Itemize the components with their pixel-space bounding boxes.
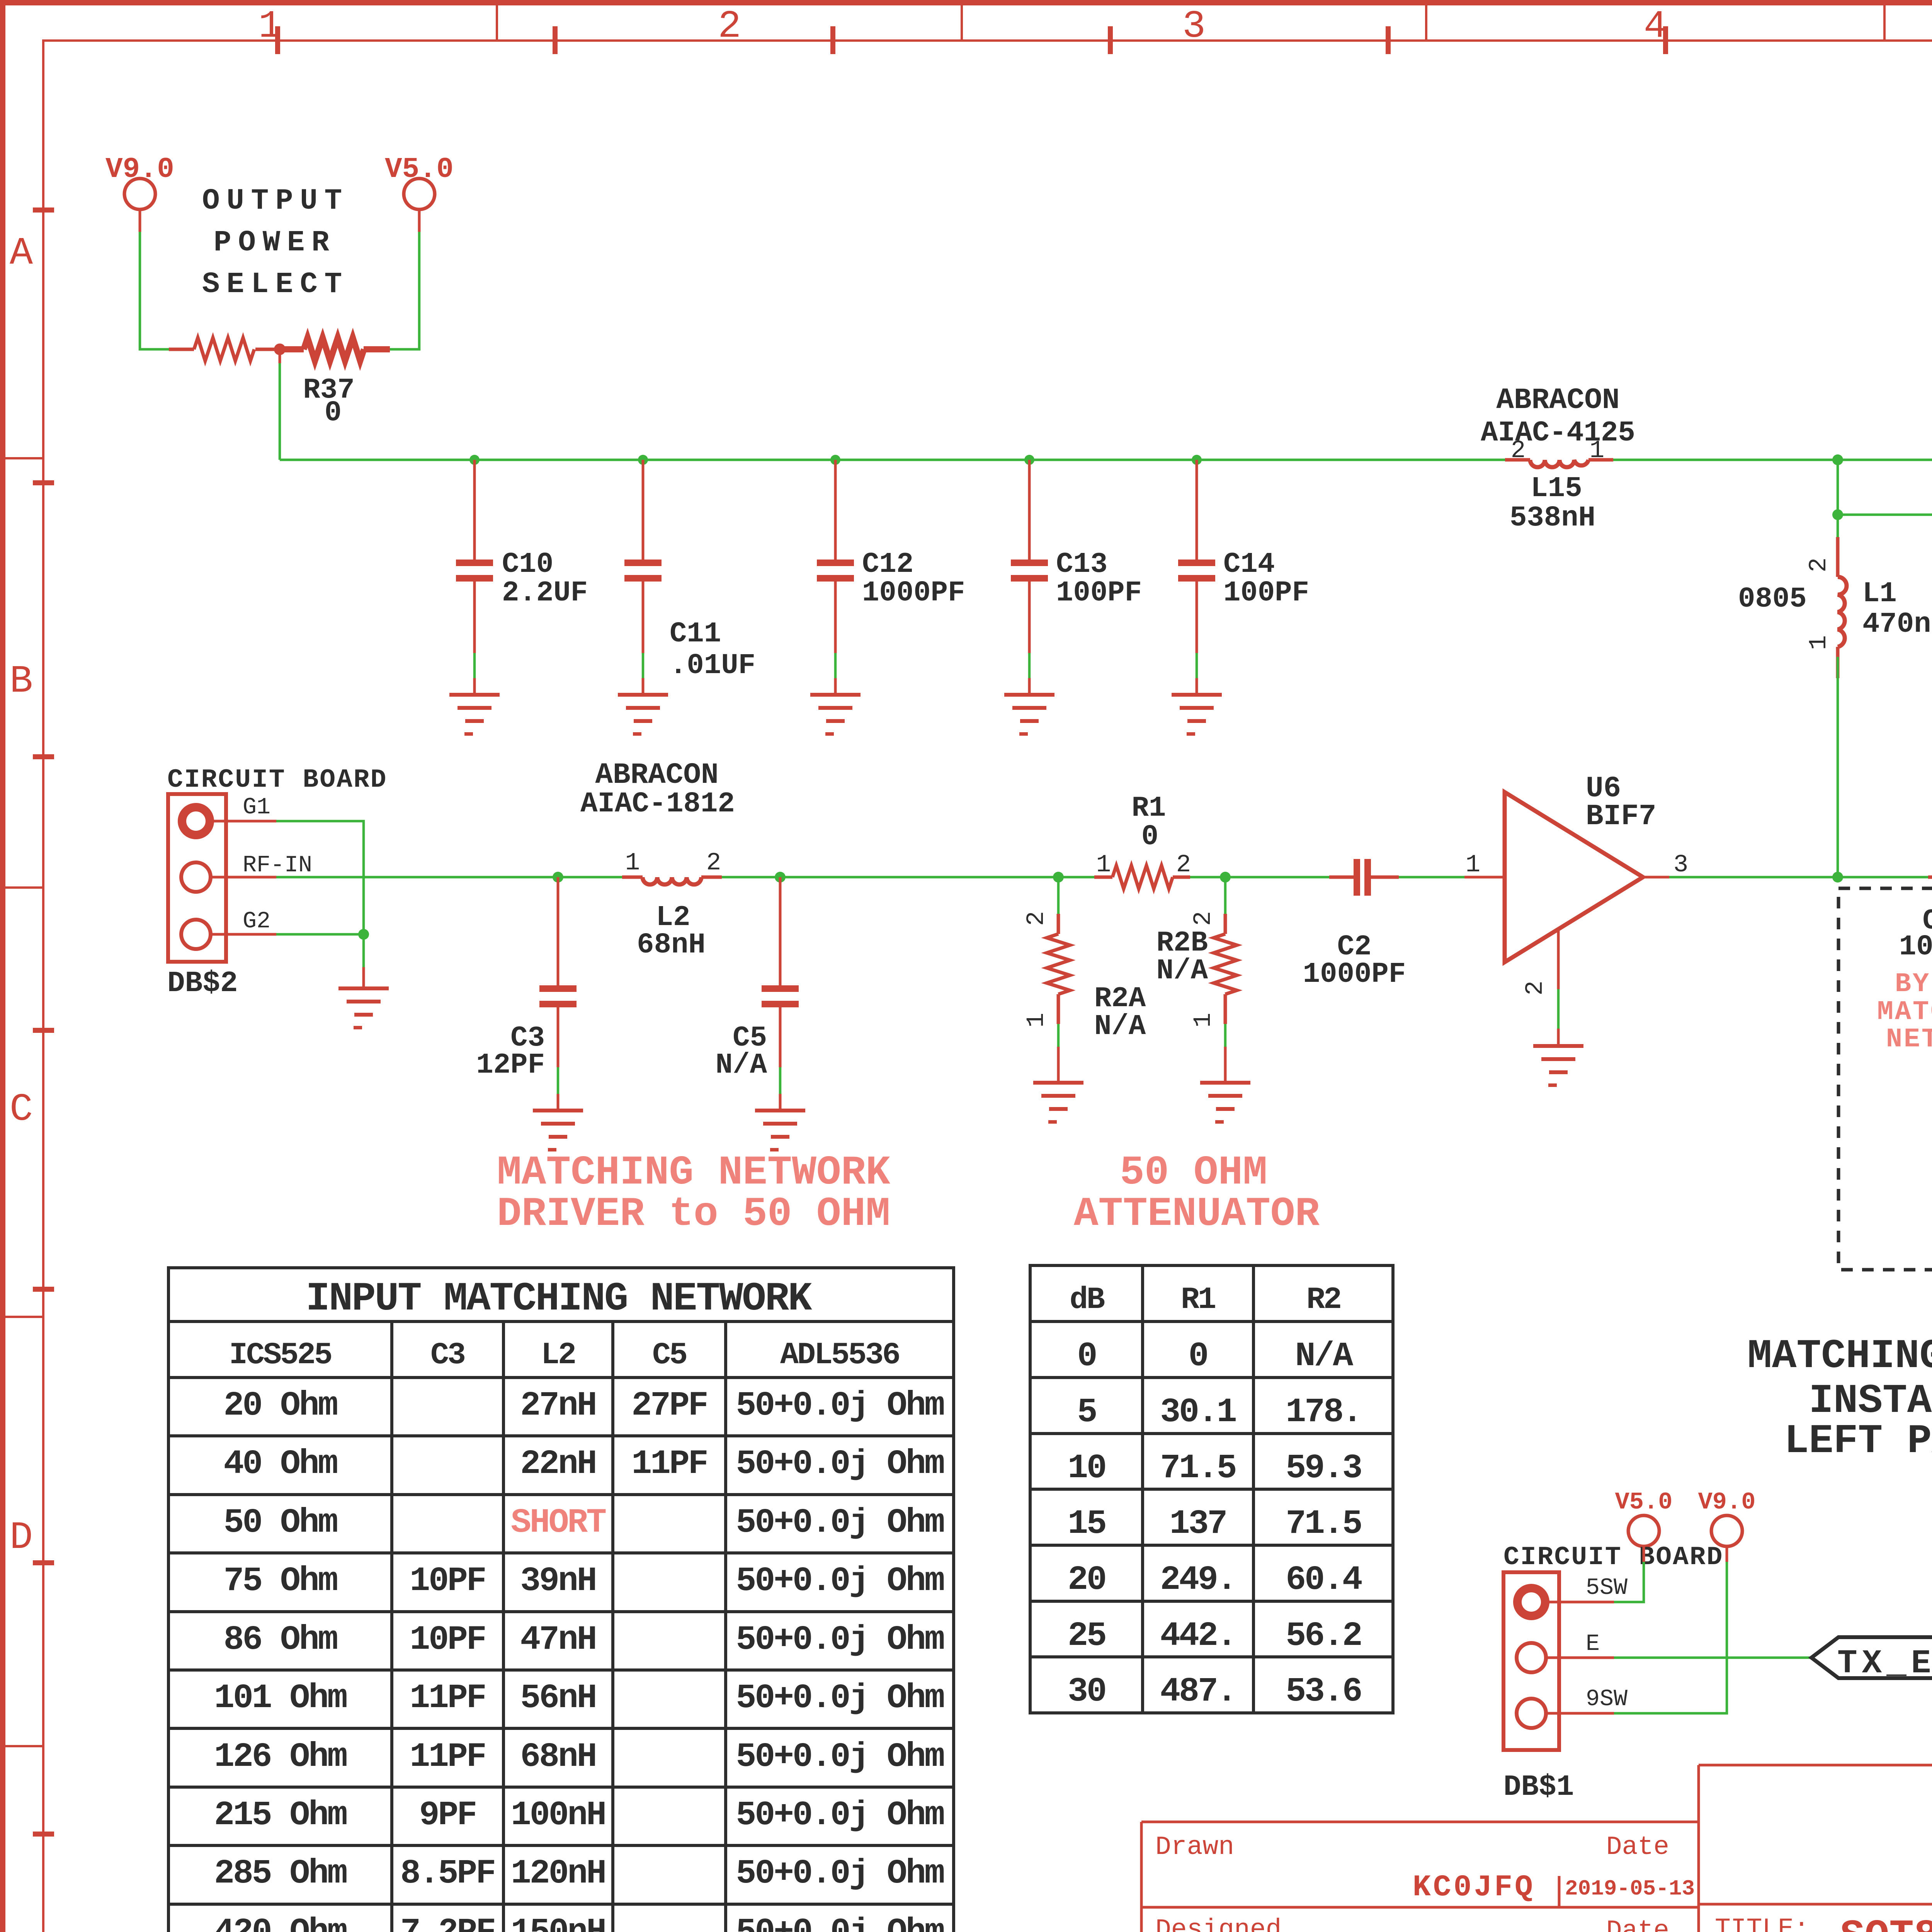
- svg-text:1: 1: [625, 849, 640, 877]
- svg-text:25: 25: [1068, 1617, 1105, 1655]
- svg-text:dB: dB: [1070, 1282, 1105, 1318]
- svg-text:E: E: [1586, 1631, 1600, 1657]
- ground under C14: [1172, 693, 1222, 736]
- svg-text:538nH: 538nH: [1510, 502, 1595, 534]
- svg-text:59.3: 59.3: [1286, 1449, 1361, 1488]
- node U6 output / power: [1832, 872, 1843, 883]
- power terminal V5.0: [385, 153, 454, 209]
- power terminal V5.0 (enable): [1615, 1488, 1673, 1546]
- svg-text:B: B: [10, 660, 33, 704]
- wire G2 node to ground: [362, 934, 365, 967]
- ground under DB$2: [338, 986, 389, 1029]
- svg-text:5: 5: [1077, 1393, 1096, 1432]
- svg-text:G2: G2: [243, 908, 270, 935]
- svg-text:2: 2: [1511, 437, 1526, 465]
- border outer band: [0, 0, 1932, 5]
- svg-text:1: 1: [1023, 1013, 1051, 1027]
- svg-text:12PF: 12PF: [476, 1049, 545, 1082]
- capacitor C3: [476, 877, 577, 1109]
- node G2 junction: [358, 929, 369, 940]
- svg-text:MATCHING NETWORK TO BE BYPASSE: MATCHING NETWORK TO BE BYPASSED.: [1747, 1333, 1932, 1379]
- svg-text:56.2: 56.2: [1286, 1617, 1361, 1655]
- capacitor C11: [624, 455, 755, 693]
- svg-text:8.5PF: 8.5PF: [400, 1855, 495, 1893]
- svg-text:R1: R1: [1132, 792, 1166, 825]
- svg-text:100PF: 100PF: [1056, 577, 1142, 609]
- svg-text:V5.0: V5.0: [1615, 1488, 1673, 1516]
- svg-text:7.2PF: 7.2PF: [400, 1913, 495, 1932]
- svg-text:50+0.0j Ohm: 50+0.0j Ohm: [736, 1855, 944, 1893]
- svg-text:10PF: 10PF: [410, 1562, 485, 1600]
- pin E: [1546, 1656, 1614, 1659]
- svg-text:56nH: 56nH: [520, 1679, 595, 1718]
- border left zone dividers: [5, 457, 43, 1747]
- svg-text:53.6: 53.6: [1286, 1673, 1361, 1711]
- inductor L15: [1481, 384, 1635, 534]
- svg-text:50 OHM: 50 OHM: [1120, 1150, 1267, 1196]
- svg-text:C3: C3: [430, 1338, 464, 1373]
- svg-text:101 Ohm: 101 Ohm: [214, 1679, 347, 1718]
- border left zone letters: [10, 232, 33, 1932]
- wire E to TX_ENA: [1614, 1656, 1811, 1659]
- ground under U6: [1533, 1044, 1583, 1087]
- node R2B: [1220, 872, 1231, 883]
- pin G1: [211, 820, 276, 823]
- svg-text:INPUT MATCHING NETWORK: INPUT MATCHING NETWORK: [306, 1276, 812, 1322]
- svg-text:C13: C13: [1056, 548, 1107, 581]
- RFIN: [167, 759, 1838, 1151]
- svg-text:DB$2: DB$2: [167, 967, 238, 1000]
- svg-text:50+0.0j Ohm: 50+0.0j Ohm: [736, 1445, 944, 1483]
- resistor R2A: [1023, 877, 1146, 1081]
- power terminal V9.0: [105, 153, 174, 209]
- node C5: [775, 872, 786, 883]
- svg-text:2: 2: [1805, 558, 1833, 572]
- svg-text:22nH: 22nH: [520, 1445, 595, 1483]
- power terminal V9.0 (enable): [1698, 1488, 1756, 1546]
- svg-text:0: 0: [1189, 1337, 1207, 1376]
- POWERRAIL: [280, 384, 1932, 877]
- op-amp U6 BIF7: [1466, 772, 1688, 995]
- RFOUT: [1832, 765, 1932, 1270]
- label OUTPUT POWER SELECT: [202, 184, 349, 301]
- svg-text:CIRCUIT BOARD: CIRCUIT BOARD: [1503, 1543, 1724, 1572]
- svg-text:2: 2: [718, 5, 741, 49]
- svg-text:Drawn: Drawn: [1155, 1832, 1234, 1862]
- ground under C11: [618, 693, 668, 736]
- NOTES: [497, 1150, 1932, 1464]
- svg-text:L2: L2: [541, 1338, 575, 1373]
- CONNECTORS2: [1503, 1486, 1932, 1804]
- svg-text:R1: R1: [1181, 1282, 1215, 1318]
- border top zone numbers: [259, 5, 1932, 49]
- svg-text:50+0.0j Ohm: 50+0.0j Ohm: [736, 1387, 944, 1425]
- resistor R37 0ohm (bold): [282, 338, 390, 361]
- inductor L2: [580, 759, 735, 961]
- wire 9SW to V9.0: [1614, 1562, 1727, 1713]
- svg-text:R2: R2: [1306, 1282, 1340, 1318]
- wire L1 down to RF node: [1837, 657, 1839, 877]
- svg-text:50+0.0j Ohm: 50+0.0j Ohm: [736, 1738, 944, 1776]
- svg-text:487.: 487.: [1160, 1673, 1235, 1711]
- svg-text:11PF: 11PF: [410, 1679, 485, 1718]
- svg-text:Designed: Designed: [1155, 1915, 1281, 1932]
- pin G2: [211, 933, 276, 936]
- svg-text:3: 3: [1182, 5, 1206, 49]
- TITLEBLOCK: [196, 1765, 1932, 1932]
- inductor L1: [1738, 515, 1932, 678]
- svg-text:V9.0: V9.0: [1698, 1488, 1756, 1516]
- pin 5SW: [1546, 1601, 1614, 1604]
- svg-text:1: 1: [1466, 851, 1480, 879]
- svg-text:50 Ohm: 50 Ohm: [224, 1504, 337, 1542]
- svg-text:N/A: N/A: [1094, 1010, 1146, 1043]
- wire R37 node down to rail: [279, 349, 281, 363]
- svg-text:BYPASS: BYPASS: [1895, 969, 1932, 1000]
- svg-text:AIAC-4125: AIAC-4125: [1481, 417, 1635, 449]
- svg-text:C: C: [10, 1088, 33, 1132]
- capacitor C5: [716, 877, 799, 1109]
- pin RF-IN: [211, 876, 276, 879]
- ground under R2A: [1033, 1081, 1083, 1124]
- wire V9.0 stem: [139, 209, 141, 232]
- svg-text:AIAC-1812: AIAC-1812: [580, 788, 735, 820]
- svg-text:30: 30: [1068, 1673, 1105, 1711]
- svg-text:71.5: 71.5: [1160, 1449, 1235, 1488]
- svg-text:2: 2: [1522, 981, 1549, 995]
- wire R1 to C2: [1190, 876, 1329, 879]
- svg-text:NETWORK: NETWORK: [1886, 1024, 1932, 1055]
- svg-text:1000PF: 1000PF: [1899, 931, 1932, 963]
- capacitor C12: [817, 455, 965, 693]
- svg-text:50+0.0j Ohm: 50+0.0j Ohm: [736, 1796, 944, 1835]
- svg-text:20: 20: [1068, 1561, 1105, 1599]
- svg-text:OUTPUT: OUTPUT: [202, 184, 349, 218]
- svg-text:1: 1: [1190, 1013, 1218, 1027]
- svg-text:2: 2: [1176, 851, 1191, 879]
- svg-text:ATTENUATOR: ATTENUATOR: [1074, 1191, 1320, 1237]
- net flag TX_ENA: [1811, 1637, 1932, 1682]
- svg-text:50+0.0j Ohm: 50+0.0j Ohm: [736, 1913, 944, 1932]
- svg-text:0: 0: [1077, 1337, 1096, 1376]
- svg-text:50+0.0j Ohm: 50+0.0j Ohm: [736, 1679, 944, 1718]
- wire branch to C1 C4: [1838, 514, 1932, 516]
- svg-text:INSTALL A CAPACITOR BETWEEN: INSTALL A CAPACITOR BETWEEN: [1809, 1378, 1932, 1424]
- svg-text:KC0JFQ: KC0JFQ: [1413, 1871, 1535, 1905]
- wire C2 to U6: [1399, 876, 1464, 879]
- svg-text:120nH: 120nH: [511, 1855, 605, 1893]
- svg-text:50+0.0j Ohm: 50+0.0j Ohm: [736, 1504, 944, 1542]
- svg-text:0: 0: [1141, 821, 1158, 853]
- wire power rail: [280, 459, 1505, 461]
- svg-text:C5: C5: [652, 1338, 686, 1373]
- svg-text:SHORT: SHORT: [511, 1504, 606, 1542]
- svg-text:137: 137: [1170, 1505, 1226, 1543]
- svg-text:249.: 249.: [1160, 1561, 1235, 1599]
- svg-text:68nH: 68nH: [637, 929, 706, 961]
- svg-text:Date: Date: [1606, 1832, 1669, 1862]
- svg-text:ABRACON: ABRACON: [1496, 384, 1619, 417]
- svg-text:ADL5536: ADL5536: [780, 1338, 899, 1373]
- svg-text:C12: C12: [862, 548, 913, 581]
- svg-text:11PF: 11PF: [410, 1738, 485, 1776]
- svg-text:2: 2: [706, 849, 721, 877]
- svg-text:A: A: [10, 232, 33, 276]
- svg-text:50+0.0j Ohm: 50+0.0j Ohm: [736, 1621, 944, 1659]
- ground under C5: [755, 1109, 805, 1151]
- svg-text:40 Ohm: 40 Ohm: [224, 1445, 337, 1483]
- svg-text:2.2UF: 2.2UF: [502, 577, 588, 609]
- svg-text:68nH: 68nH: [520, 1738, 595, 1776]
- svg-text:3: 3: [1673, 851, 1688, 879]
- svg-text:1000PF: 1000PF: [1303, 958, 1406, 991]
- capacitor C14: [1178, 455, 1309, 693]
- titleblock outline: [1141, 1765, 1932, 1932]
- svg-text:LEFT PAD C21 AND LEFT PAD C25: LEFT PAD C21 AND LEFT PAD C25: [1784, 1418, 1932, 1464]
- svg-text:N/A: N/A: [1156, 955, 1208, 987]
- resistor R37a: [169, 338, 277, 361]
- capacitor C2: [1303, 859, 1406, 991]
- svg-text:SELECT: SELECT: [202, 268, 349, 301]
- svg-text:2019-05-13: 2019-05-13: [1565, 1876, 1695, 1901]
- wire U6 pin3 out: [1643, 876, 1669, 879]
- svg-text:30.1: 30.1: [1160, 1393, 1236, 1432]
- svg-text:Date: Date: [1606, 1916, 1669, 1932]
- svg-text:420 Ohm: 420 Ohm: [214, 1913, 347, 1932]
- capacitor C13: [1011, 455, 1142, 693]
- svg-text:60.4: 60.4: [1286, 1561, 1362, 1599]
- svg-text:V9.0: V9.0: [105, 153, 174, 186]
- border left minor ticks: [33, 207, 54, 1932]
- connector DB$2: [167, 765, 388, 1000]
- svg-text:285 Ohm: 285 Ohm: [214, 1855, 347, 1893]
- svg-text:0: 0: [325, 397, 342, 429]
- svg-text:1: 1: [1590, 437, 1604, 465]
- TABLES: [168, 1265, 1393, 1932]
- capacitor C21: [1877, 859, 1932, 1055]
- svg-text:BIF7: BIF7: [1586, 800, 1656, 833]
- svg-text:DRIVER to 50 OHM: DRIVER to 50 OHM: [497, 1191, 890, 1237]
- wire RF-IN net: [276, 876, 622, 879]
- svg-text:75 Ohm: 75 Ohm: [224, 1562, 337, 1600]
- ground under R2B: [1200, 1081, 1250, 1124]
- resistor R1: [1094, 792, 1191, 889]
- ground under C13: [1004, 693, 1054, 736]
- svg-text:50+0.0j Ohm: 50+0.0j Ohm: [736, 1562, 944, 1600]
- svg-text:15: 15: [1068, 1505, 1105, 1543]
- svg-text:L15: L15: [1531, 473, 1582, 505]
- wire rail down to L1: [1837, 460, 1839, 515]
- svg-text:L1: L1: [1862, 578, 1897, 610]
- node power rail to L1 branch: [1832, 454, 1843, 465]
- svg-text:MATCHING NETWORK: MATCHING NETWORK: [497, 1150, 890, 1196]
- svg-text:150nH: 150nH: [511, 1913, 605, 1932]
- svg-text:C14: C14: [1223, 548, 1275, 581]
- table attenuator: [1030, 1265, 1393, 1713]
- table input matching network: [168, 1268, 954, 1932]
- svg-text:RF-IN: RF-IN: [243, 852, 312, 879]
- svg-text:DB$1: DB$1: [1503, 1770, 1574, 1804]
- svg-text:126 Ohm: 126 Ohm: [214, 1738, 347, 1776]
- svg-text:2: 2: [1190, 911, 1218, 926]
- svg-text:71.5: 71.5: [1286, 1505, 1361, 1543]
- ground under C12: [810, 693, 861, 736]
- svg-text:100PF: 100PF: [1223, 577, 1309, 609]
- wire 5SW to V5.0: [1614, 1562, 1644, 1602]
- svg-text:9SW: 9SW: [1586, 1686, 1628, 1713]
- svg-text:TITLE:: TITLE:: [1715, 1914, 1810, 1932]
- svg-text:CIRCUIT BOARD: CIRCUIT BOARD: [167, 765, 388, 795]
- svg-text:10: 10: [1068, 1449, 1105, 1488]
- svg-text:86 Ohm: 86 Ohm: [224, 1621, 337, 1659]
- node C3: [553, 872, 563, 883]
- wire L2 to R1: [722, 876, 1094, 879]
- ground under C10: [449, 693, 500, 736]
- pin 9SW: [1546, 1712, 1614, 1715]
- svg-text:1: 1: [1805, 635, 1833, 650]
- svg-text:C11: C11: [670, 618, 721, 650]
- svg-text:1: 1: [1096, 851, 1111, 879]
- svg-text:0805: 0805: [1738, 583, 1807, 616]
- svg-text:2: 2: [1023, 911, 1051, 926]
- svg-text:G1: G1: [243, 794, 270, 821]
- svg-text:470nH: 470nH: [1862, 608, 1932, 641]
- svg-text:N/A: N/A: [1295, 1337, 1354, 1376]
- svg-text:POWER: POWER: [214, 226, 336, 259]
- wire V5.0 stem: [418, 209, 421, 232]
- svg-text:27PF: 27PF: [631, 1387, 707, 1425]
- svg-text:39nH: 39nH: [520, 1562, 595, 1600]
- svg-text:SOT89 RF AMPLIFIER: SOT89 RF AMPLIFIER: [1840, 1913, 1932, 1932]
- ground under C3: [533, 1109, 583, 1151]
- svg-text:442.: 442.: [1160, 1617, 1235, 1655]
- svg-text:C10: C10: [502, 548, 553, 581]
- wire G1 to G2: [276, 821, 364, 934]
- POWERSELECT: [105, 153, 454, 460]
- svg-text:5SW: 5SW: [1586, 1575, 1628, 1601]
- node R2A: [1053, 872, 1064, 883]
- svg-text:1000PF: 1000PF: [862, 577, 965, 609]
- wire node to C21: [1838, 876, 1928, 879]
- border top zone dividers: [496, 5, 1932, 41]
- svg-text:215 Ohm: 215 Ohm: [214, 1796, 347, 1835]
- dashed bypass box: [1838, 888, 1932, 1270]
- svg-text:178.: 178.: [1286, 1393, 1361, 1432]
- svg-text:D: D: [10, 1516, 33, 1560]
- svg-text:47nH: 47nH: [520, 1621, 595, 1659]
- border top minor ticks: [275, 26, 1932, 54]
- node R37 junction: [274, 344, 286, 355]
- svg-text:N/A: N/A: [716, 1049, 767, 1082]
- svg-text:100nH: 100nH: [511, 1796, 605, 1835]
- connector DB$1: [1503, 1543, 1724, 1804]
- resistor R2B: [1156, 877, 1237, 1081]
- capacitor C10: [456, 455, 588, 693]
- svg-text:MATCHING: MATCHING: [1877, 997, 1932, 1027]
- svg-text:ABRACON: ABRACON: [595, 759, 718, 792]
- svg-text:20 Ohm: 20 Ohm: [224, 1387, 337, 1425]
- svg-text:TX_ENA: TX_ENA: [1837, 1645, 1932, 1682]
- svg-text:V5.0: V5.0: [385, 153, 454, 186]
- wire U6 pin2 to ground: [1557, 929, 1560, 989]
- node L1 top branch: [1832, 509, 1843, 520]
- svg-text:10PF: 10PF: [410, 1621, 485, 1659]
- svg-text:9PF: 9PF: [419, 1796, 476, 1835]
- drawn block labels: [1155, 1832, 1669, 1932]
- svg-text:.01UF: .01UF: [670, 650, 755, 682]
- svg-text:11PF: 11PF: [631, 1445, 707, 1483]
- note C21/C25 bypass: [1747, 1291, 1932, 1464]
- svg-text:27nH: 27nH: [520, 1387, 595, 1425]
- svg-text:ICS525: ICS525: [229, 1338, 331, 1373]
